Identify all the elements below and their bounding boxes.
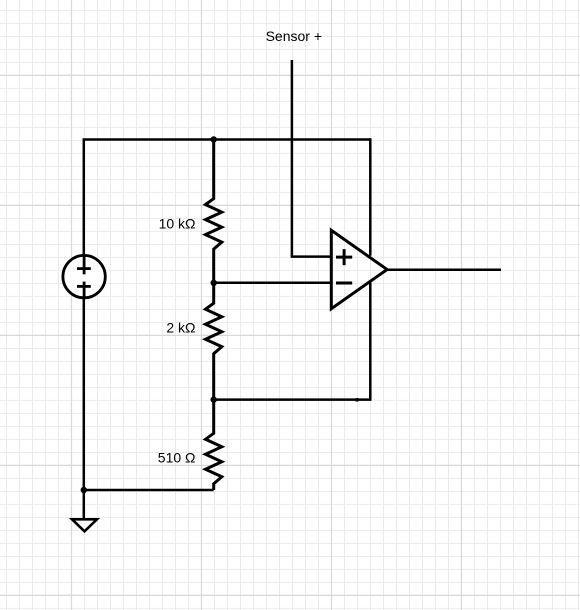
resistor R2 2 kΩ [206, 283, 222, 400]
junction: bottom rail / ground [81, 487, 87, 493]
wire: non-inverting input horizontal segment [291, 255, 332, 258]
svg-text:10 kΩ: 10 kΩ [159, 216, 196, 232]
svg-text:510 Ω: 510 Ω [158, 450, 196, 466]
svg-text:2 kΩ: 2 kΩ [166, 320, 195, 336]
svg-text:Sensor +: Sensor + [266, 28, 322, 44]
resistor R1 10 kΩ [206, 140, 222, 283]
wire: source bottom lead down to bottom rail [83, 298, 86, 490]
junction: feedback node [211, 396, 217, 402]
wire: feedback bottom horizontal to resistor chain [214, 398, 372, 401]
wire: top rail from source to feedback corner [84, 140, 371, 256]
wire: ground lead [83, 490, 86, 519]
op-amp U1 [331, 230, 387, 308]
wire: right vertical rail upper segment (above op-amp) [369, 138, 372, 256]
wire: Sensor + vertical lead down to non-inverting input level [291, 60, 294, 257]
resistor R3 510 Ω [206, 400, 222, 490]
wire: bottom rail horizontal [84, 489, 214, 492]
ground [72, 519, 97, 531]
junction: top rail / resistor chain [211, 136, 217, 142]
wire: inverting input horizontal segment [214, 282, 332, 285]
voltage source V1 [63, 255, 105, 297]
junction: inverting input node [211, 280, 217, 286]
wire: segment joint marker on feedback wire [356, 398, 359, 401]
wire: right vertical rail lower segment (below op-amp) [369, 283, 372, 400]
wire: op-amp output [387, 269, 501, 272]
